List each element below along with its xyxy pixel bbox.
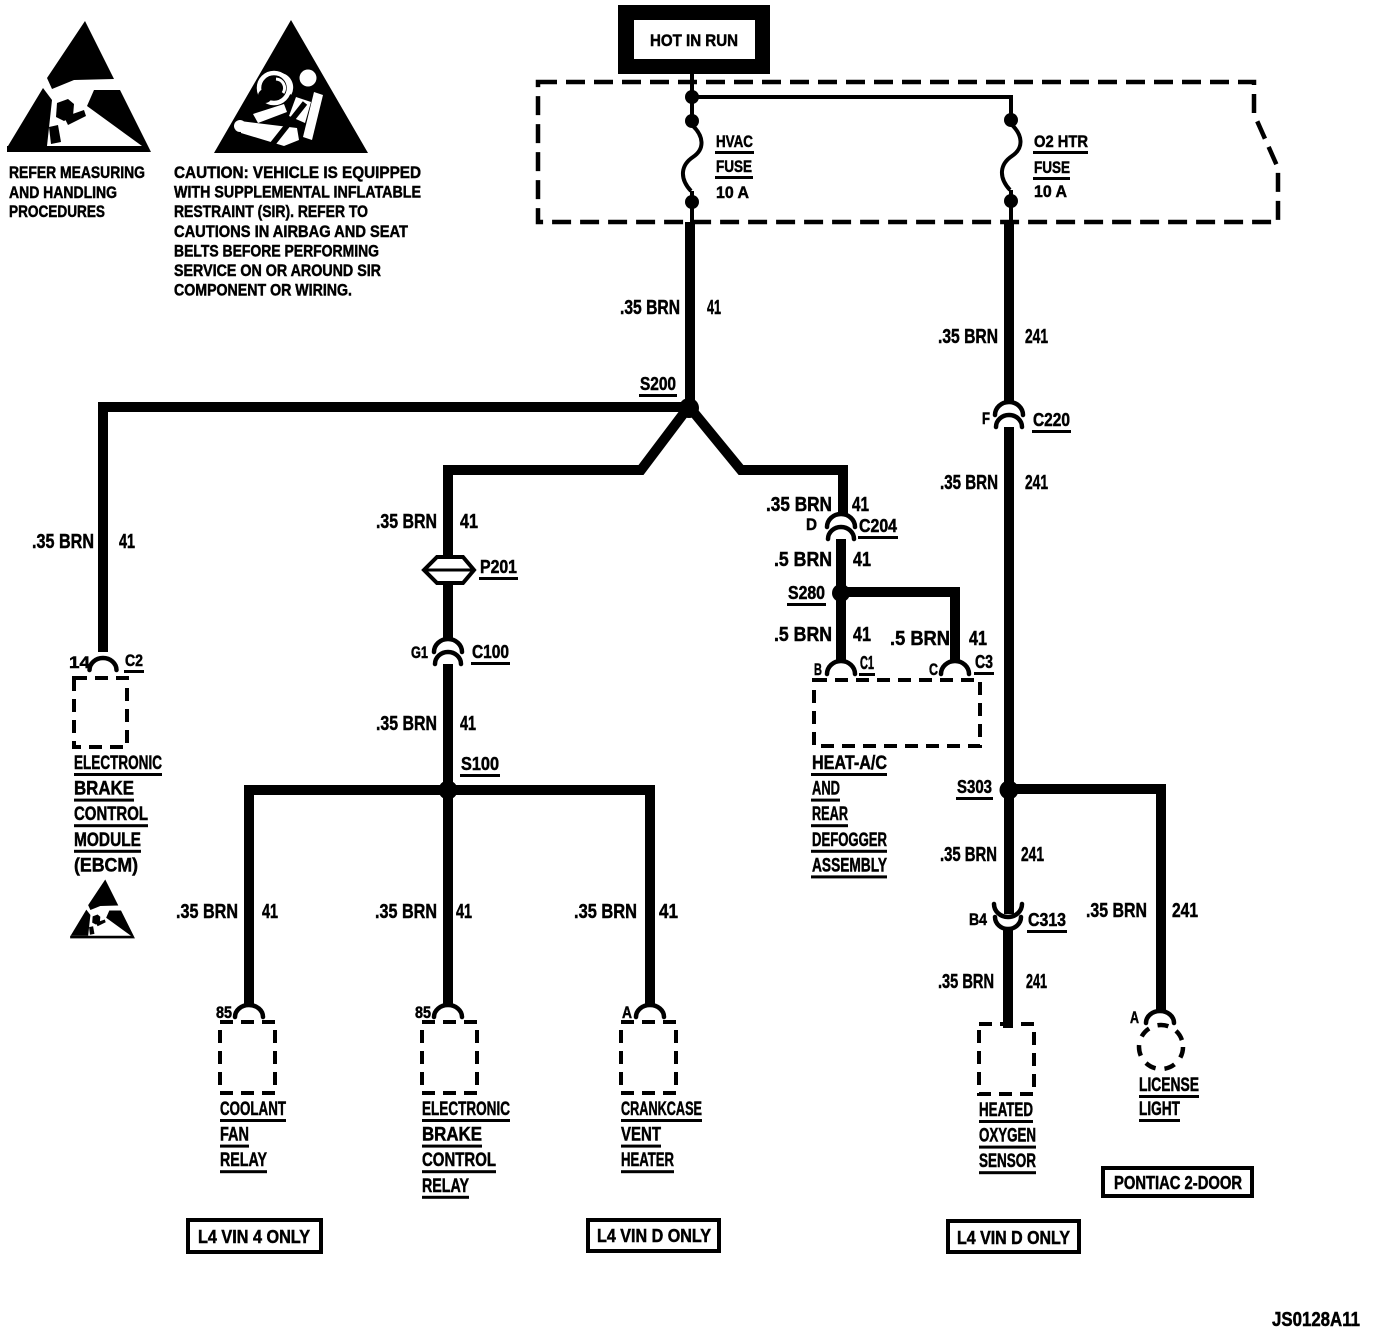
svg-text:MODULE: MODULE	[74, 830, 141, 851]
svg-text:AND: AND	[812, 779, 840, 800]
wire label .35 BRN 41	[376, 713, 476, 735]
splice S280	[787, 583, 850, 606]
svg-text:B: B	[814, 660, 822, 679]
svg-text:.35 BRN: .35 BRN	[376, 713, 437, 735]
svg-text:CAUTION: VEHICLE IS EQUIPPED: CAUTION: VEHICLE IS EQUIPPED	[174, 163, 421, 182]
svg-text:L4 VIN D ONLY: L4 VIN D ONLY	[597, 1226, 711, 1246]
coolant fan relay (dashed box)	[220, 1022, 275, 1093]
splice S200	[639, 374, 699, 418]
svg-text:CONTROL: CONTROL	[422, 1150, 496, 1171]
svg-text:.35 BRN: .35 BRN	[940, 844, 997, 866]
svg-text:41: 41	[460, 713, 476, 735]
connector C204 pin D	[806, 514, 898, 539]
svg-text:C313: C313	[1028, 910, 1066, 930]
connector C1 pin B	[814, 653, 875, 679]
wire label .35 BRN 241	[938, 971, 1047, 993]
svg-text:SENSOR: SENSOR	[979, 1151, 1036, 1172]
connector pin A (crankcase vent heater)	[622, 1003, 664, 1022]
svg-text:CONTROL: CONTROL	[74, 804, 148, 825]
crankcase vent heater label	[621, 1099, 702, 1173]
connector C313 pin B4	[969, 904, 1067, 933]
svg-text:OXYGEN: OXYGEN	[979, 1126, 1036, 1147]
svg-text:HVAC: HVAC	[716, 132, 753, 151]
ESD warning caption	[9, 163, 145, 221]
svg-text:(EBCM): (EBCM)	[74, 855, 138, 876]
heated oxygen sensor (dashed box)	[979, 1024, 1034, 1094]
wire label .35 BRN 241	[938, 326, 1048, 348]
svg-text:.35 BRN: .35 BRN	[938, 971, 994, 993]
wire: jumper to O2 HTR fuse	[692, 97, 1011, 120]
svg-text:BRAKE: BRAKE	[74, 779, 134, 800]
splice S303	[956, 777, 1019, 800]
svg-text:14: 14	[69, 653, 91, 672]
svg-text:.35 BRN: .35 BRN	[32, 531, 94, 553]
svg-text:.35 BRN: .35 BRN	[574, 901, 637, 923]
svg-text:RESTRAINT (SIR). REFER TO: RESTRAINT (SIR). REFER TO	[174, 202, 368, 221]
svg-text:41: 41	[119, 531, 135, 553]
svg-text:241: 241	[1172, 900, 1198, 922]
wire: S280 to connector C3	[845, 592, 955, 663]
svg-text:241: 241	[1021, 844, 1044, 866]
svg-text:C100: C100	[472, 642, 509, 662]
wire bus: S100 to three relays	[249, 790, 650, 1005]
svg-text:.35 BRN: .35 BRN	[375, 901, 437, 923]
electronic brake control relay (dashed box)	[422, 1022, 477, 1093]
svg-text:.5 BRN: .5 BRN	[774, 549, 832, 571]
svg-text:L4 VIN D ONLY: L4 VIN D ONLY	[957, 1228, 1070, 1248]
svg-text:41: 41	[852, 494, 869, 516]
splice S100	[439, 754, 501, 800]
svg-text:.35 BRN: .35 BRN	[940, 472, 998, 494]
in-line connector P201 (grommet)	[424, 557, 518, 583]
svg-text:WITH SUPPLEMENTAL INFLATABLE: WITH SUPPLEMENTAL INFLATABLE	[174, 183, 421, 202]
wire label .35 BRN 241	[1086, 900, 1198, 922]
note box: L4 VIN D ONLY (heated O2 sensor)	[948, 1221, 1079, 1252]
svg-text:.5 BRN: .5 BRN	[774, 624, 832, 646]
svg-text:241: 241	[1026, 971, 1047, 993]
wire 41: HVAC fuse to splice S200	[685, 222, 695, 402]
svg-text:P201: P201	[480, 557, 517, 577]
EBCM label	[74, 753, 162, 876]
note box: PONTIAC 2-DOOR	[1103, 1168, 1252, 1196]
wire 241: S303 to license light	[1009, 789, 1161, 1012]
svg-text:HOT IN RUN: HOT IN RUN	[650, 31, 738, 50]
svg-text:AND HANDLING: AND HANDLING	[9, 183, 117, 202]
connector C220 pin F	[982, 402, 1071, 433]
svg-text:HEATER: HEATER	[621, 1150, 674, 1171]
svg-text:PONTIAC 2-DOOR: PONTIAC 2-DOOR	[1114, 1173, 1242, 1193]
svg-text:S303: S303	[957, 777, 992, 797]
coolant fan relay label	[220, 1099, 286, 1173]
ESD handling warning symbol	[7, 21, 151, 152]
svg-text:L4 VIN 4 ONLY: L4 VIN 4 ONLY	[198, 1227, 310, 1247]
svg-text:85: 85	[216, 1003, 232, 1022]
connector C100 pin G1	[411, 639, 510, 665]
svg-text:HEAT-A/C: HEAT-A/C	[812, 753, 887, 774]
svg-text:B4: B4	[969, 910, 987, 929]
svg-text:.5 BRN: .5 BRN	[890, 628, 950, 650]
svg-text:RELAY: RELAY	[220, 1150, 267, 1171]
svg-text:O2 HTR: O2 HTR	[1034, 132, 1088, 151]
wire label .5 BRN 41	[890, 628, 987, 650]
svg-text:C220: C220	[1033, 410, 1070, 430]
svg-text:A: A	[622, 1003, 632, 1022]
svg-text:41: 41	[460, 511, 478, 533]
svg-text:SERVICE ON OR AROUND SIR: SERVICE ON OR AROUND SIR	[174, 261, 381, 280]
HVAC fuse label	[715, 132, 754, 202]
license light label	[1139, 1075, 1199, 1122]
wire label .5 BRN 41	[774, 549, 871, 571]
svg-text:ELECTRONIC: ELECTRONIC	[422, 1099, 510, 1120]
wire label .35 BRN 41 (coolant fan relay)	[176, 901, 278, 923]
connector pin A (license light)	[1130, 1008, 1174, 1027]
svg-text:.35 BRN: .35 BRN	[938, 326, 998, 348]
fuse block (dashed outline)	[538, 82, 1278, 222]
connector C2 pin 14 (EBCM)	[69, 651, 144, 673]
svg-text:241: 241	[1025, 472, 1048, 494]
svg-text:DEFOGGER: DEFOGGER	[812, 830, 887, 851]
svg-text:41: 41	[456, 901, 472, 923]
svg-text:LICENSE: LICENSE	[1139, 1075, 1199, 1096]
electronic brake control relay label	[422, 1099, 510, 1199]
svg-text:.35 BRN: .35 BRN	[620, 297, 680, 319]
svg-text:LIGHT: LIGHT	[1139, 1099, 1180, 1120]
electronic brake control module EBCM (dashed box)	[74, 678, 127, 747]
svg-text:BRAKE: BRAKE	[422, 1125, 482, 1146]
note box: L4 VIN D ONLY (EBC relay)	[588, 1220, 719, 1251]
SIR caution caption	[174, 163, 421, 300]
heat-A/C and rear defogger assembly (dashed box)	[814, 680, 980, 746]
svg-text:COOLANT: COOLANT	[220, 1099, 286, 1120]
wire label .35 BRN 241	[940, 472, 1048, 494]
svg-text:RELAY: RELAY	[422, 1176, 469, 1197]
crankcase vent heater (dashed box)	[621, 1022, 676, 1093]
svg-text:10 A: 10 A	[1034, 182, 1067, 201]
connector pin 85 (EBC relay)	[415, 1003, 462, 1022]
license light (dashed circle)	[1139, 1025, 1183, 1069]
svg-text:JS0128A11: JS0128A11	[1272, 1309, 1360, 1331]
svg-text:ELECTRONIC: ELECTRONIC	[74, 753, 162, 774]
wire: P201 to C100	[443, 583, 453, 641]
svg-text:C: C	[929, 660, 938, 679]
wire label .35 BRN 41	[620, 297, 721, 319]
HOT IN RUN power feed box	[618, 5, 770, 74]
svg-text:41: 41	[853, 624, 871, 646]
heat-A/C assembly label	[811, 753, 887, 878]
wire 241: O2 HTR fuse to C220	[1004, 222, 1014, 404]
svg-text:85: 85	[415, 1003, 431, 1022]
heated oxygen sensor label	[979, 1100, 1036, 1174]
svg-text:.35 BRN: .35 BRN	[766, 494, 832, 516]
svg-text:C3: C3	[975, 652, 993, 672]
svg-text:C204: C204	[859, 516, 897, 536]
wire label .35 BRN 41	[766, 494, 869, 516]
svg-text:C1: C1	[860, 653, 874, 673]
svg-text:.35 BRN: .35 BRN	[176, 901, 238, 923]
svg-text:41: 41	[707, 297, 721, 319]
svg-text:F: F	[982, 409, 990, 428]
wire label .35 BRN 41 (crankcase vent heater)	[574, 901, 678, 923]
svg-text:REFER MEASURING: REFER MEASURING	[9, 163, 145, 182]
wire 41: S200 to C204	[691, 409, 843, 516]
note box: L4 VIN 4 ONLY	[188, 1220, 321, 1252]
wire 41: C100 to splice S100	[443, 664, 453, 786]
SIR airbag warning symbol	[214, 20, 368, 153]
svg-text:PROCEDURES: PROCEDURES	[9, 202, 105, 221]
wire 241: C313 to heated oxygen sensor	[1003, 928, 1013, 1028]
svg-text:FUSE: FUSE	[716, 157, 752, 176]
svg-text:FAN: FAN	[220, 1125, 249, 1146]
wire label .35 BRN 241	[940, 844, 1044, 866]
svg-text:D: D	[806, 515, 817, 534]
svg-text:VENT: VENT	[621, 1125, 661, 1146]
svg-text:FUSE: FUSE	[1034, 158, 1070, 177]
svg-text:HEATED: HEATED	[979, 1100, 1033, 1121]
svg-text:.35 BRN: .35 BRN	[376, 511, 437, 533]
svg-text:REAR: REAR	[812, 804, 848, 825]
svg-text:10 A: 10 A	[716, 183, 749, 202]
wire 41: S200 to EBCM connector C2	[103, 407, 690, 652]
svg-text:.35 BRN: .35 BRN	[1086, 900, 1147, 922]
svg-text:C2: C2	[125, 651, 143, 670]
wire: S280 to connector C1	[836, 593, 846, 663]
svg-text:S280: S280	[788, 583, 825, 603]
svg-text:COMPONENT OR WIRING.: COMPONENT OR WIRING.	[174, 281, 352, 300]
svg-text:41: 41	[262, 901, 278, 923]
O2 HTR fuse element	[1002, 113, 1021, 222]
HVAC fuse element	[683, 114, 702, 222]
wire label .35 BRN 41	[376, 511, 478, 533]
wire 241: C220 to splice S303	[1004, 427, 1014, 786]
svg-text:41: 41	[969, 628, 987, 650]
wire 41: C204 to splice S280	[836, 539, 846, 594]
wire: feed from HOT IN RUN into fuse block	[690, 74, 694, 121]
svg-text:S100: S100	[461, 754, 499, 774]
svg-text:ASSEMBLY: ASSEMBLY	[812, 855, 887, 876]
svg-text:CAUTIONS IN AIRBAG AND SEAT: CAUTIONS IN AIRBAG AND SEAT	[174, 222, 409, 241]
wire label .5 BRN 41	[774, 624, 871, 646]
svg-text:241: 241	[1025, 326, 1048, 348]
svg-text:CRANKCASE: CRANKCASE	[621, 1099, 702, 1120]
svg-text:G1: G1	[411, 643, 428, 662]
O2 HTR fuse label	[1033, 132, 1088, 201]
ESD symbol at EBCM	[70, 879, 135, 938]
wire label .35 BRN 41	[32, 531, 135, 553]
connector C3 pin C	[929, 652, 994, 679]
svg-text:41: 41	[659, 901, 678, 923]
svg-text:A: A	[1130, 1008, 1139, 1027]
svg-text:BELTS BEFORE PERFORMING: BELTS BEFORE PERFORMING	[174, 241, 379, 260]
junction dot: feed splits to both fuses	[685, 90, 699, 104]
wire 41: S200 to P201	[448, 409, 687, 559]
connector pin 85 (coolant fan relay)	[216, 1003, 263, 1022]
svg-text:S200: S200	[640, 374, 676, 394]
wire 241: S303 to C313	[1004, 790, 1014, 914]
svg-text:41: 41	[853, 549, 871, 571]
wire label .35 BRN 41 (EBC relay)	[375, 901, 472, 923]
